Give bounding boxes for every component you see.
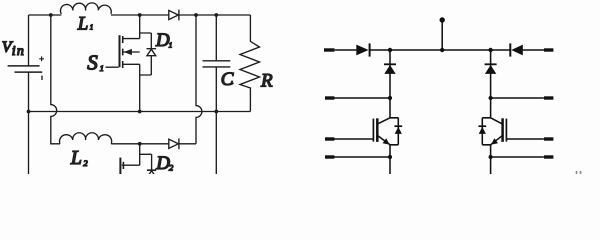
label + polarity (39, 56, 44, 61)
wire phase2 output vertical (hops over return rail) (196, 15, 202, 144)
node: junction C bottom (214, 110, 218, 114)
node: junction left leg top (388, 48, 392, 52)
polarity tick minus (41, 76, 43, 80)
MOSFET S1 (106, 15, 140, 112)
wire stub lower right (491, 156, 544, 158)
node: junction battery return (27, 110, 31, 114)
node: junction Vin+ split (49, 13, 53, 17)
node: junction L1/S1 drain (138, 13, 142, 17)
resistor R (240, 15, 260, 112)
terminal dash (544, 96, 553, 99)
node: junction right leg top (488, 48, 492, 52)
wire stub upper left (334, 97, 390, 99)
diode clamp left (384, 63, 396, 65)
wire dc rail (335, 49, 544, 51)
inductor L2 (60, 133, 112, 144)
node: junction L2/S2 drain (138, 142, 142, 146)
svg-text:1: 1 (169, 40, 173, 49)
terminal dash left (324, 48, 335, 51)
node: junction (489, 96, 493, 100)
diode boost output (top rail) (169, 10, 179, 21)
svg-text:C: C (221, 69, 234, 90)
svg-text:L: L (77, 13, 89, 34)
diode boost output phase 2 (169, 138, 179, 149)
svg-text:in: in (12, 44, 25, 59)
voltage source Vin battery plates (8, 65, 40, 67)
terminal dash gate left (325, 137, 334, 140)
terminal dash (325, 155, 334, 158)
terminal dash (325, 96, 334, 99)
terminal dash gate right (544, 137, 553, 140)
node: junction (388, 155, 392, 159)
svg-text:S: S (87, 51, 98, 75)
wire right leg (490, 50, 492, 174)
wire left leg (389, 50, 391, 174)
wire left edge with source (28, 15, 30, 174)
svg-text:2: 2 (169, 162, 174, 172)
node: junction output (phase2 tie) (194, 13, 198, 17)
wire stub lower left (334, 156, 390, 158)
diode antiparallel IGBT left (390, 118, 402, 145)
diode D1 (antiparallel of S1) (140, 33, 156, 75)
wire bottom rail (Vin return) (29, 111, 251, 113)
artifact: cropped text bottom right (577, 171, 581, 174)
diode D2' antiparallel of S2 (cropped) (147, 170, 156, 177)
inductor L1 (61, 3, 112, 14)
terminal dash right (544, 48, 553, 51)
IGBT left (334, 118, 390, 145)
svg-text:2: 2 (83, 158, 88, 168)
svg-text:L: L (70, 147, 82, 169)
node: junction mid stub (440, 48, 444, 52)
diode clamp right (485, 63, 497, 65)
MOSFET S2 (cropped) (120, 144, 151, 174)
capacitor C (203, 15, 231, 174)
diode antiparallel IGBT right (478, 118, 490, 145)
node: junction (388, 96, 392, 100)
diode rail right (509, 43, 511, 56)
wire stub upper right (491, 97, 544, 99)
wire inner vertical Vin+ to L2 (hops over return rail) (51, 15, 60, 144)
diode rail left (356, 45, 368, 56)
svg-text:R: R (260, 71, 273, 92)
IGBT right (mirrored) (491, 118, 544, 145)
svg-text:D: D (155, 153, 170, 174)
svg-text:1: 1 (90, 24, 94, 32)
wire top rail (29, 14, 251, 16)
terminal dc mid-point stub (440, 17, 445, 22)
node: junction S1 source (138, 110, 142, 114)
node: junction (489, 155, 493, 159)
wire L2 rail (111, 143, 196, 145)
node: junction C top (214, 13, 218, 17)
terminal dash (544, 155, 553, 158)
svg-text:1: 1 (100, 63, 104, 73)
